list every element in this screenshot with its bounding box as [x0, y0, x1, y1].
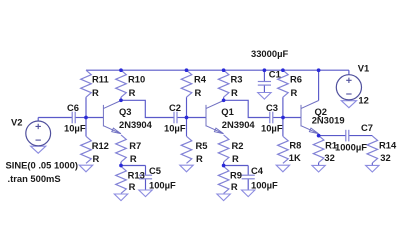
svg-text:R: R — [231, 87, 238, 98]
svg-text:R7: R7 — [129, 140, 141, 151]
svg-text:R: R — [196, 153, 203, 164]
svg-text:C6: C6 — [67, 102, 79, 113]
svg-text:R: R — [93, 153, 100, 164]
svg-text:R: R — [232, 153, 239, 164]
svg-text:Q3: Q3 — [119, 106, 132, 117]
svg-text:R: R — [291, 87, 298, 98]
svg-text:R: R — [92, 87, 99, 98]
svg-text:32: 32 — [380, 152, 390, 163]
svg-text:V1: V1 — [358, 62, 369, 73]
svg-text:C7: C7 — [361, 122, 373, 133]
svg-text:C1: C1 — [269, 68, 281, 79]
svg-text:1000µF: 1000µF — [335, 142, 367, 153]
svg-text:C3: C3 — [266, 102, 278, 113]
svg-text:R4: R4 — [194, 73, 207, 84]
svg-text:R14: R14 — [379, 140, 397, 151]
svg-text:R6: R6 — [290, 73, 302, 84]
svg-text:C4: C4 — [251, 165, 264, 176]
svg-text:12: 12 — [358, 94, 368, 105]
svg-text:C5: C5 — [149, 165, 161, 176]
svg-text:10µF: 10µF — [261, 122, 283, 133]
svg-text:R2: R2 — [232, 140, 244, 151]
svg-text:R: R — [129, 181, 136, 192]
svg-text:R: R — [129, 87, 136, 98]
svg-text:R12: R12 — [92, 140, 109, 151]
svg-text:R: R — [195, 87, 202, 98]
svg-text:R5: R5 — [196, 140, 208, 151]
svg-text:2N3904: 2N3904 — [119, 119, 153, 130]
svg-text:R: R — [130, 153, 137, 164]
svg-text:100µF: 100µF — [149, 179, 176, 190]
svg-text:1K: 1K — [289, 152, 301, 163]
svg-text:R3: R3 — [231, 73, 243, 84]
svg-text:32: 32 — [324, 152, 334, 163]
svg-text:SINE(0 .05 1000): SINE(0 .05 1000) — [6, 159, 78, 170]
svg-text:Q1: Q1 — [221, 106, 234, 117]
svg-text:.tran 500mS: .tran 500mS — [8, 173, 61, 184]
svg-text:R10: R10 — [128, 73, 145, 84]
svg-text:C2: C2 — [169, 102, 181, 113]
svg-text:R11: R11 — [92, 73, 109, 84]
svg-text:33000µF: 33000µF — [251, 48, 288, 59]
svg-text:10µF: 10µF — [164, 122, 186, 133]
svg-text:2N3904: 2N3904 — [222, 119, 256, 130]
svg-text:10µF: 10µF — [64, 122, 86, 133]
svg-text:R: R — [231, 181, 238, 192]
svg-text:R8: R8 — [289, 140, 301, 151]
svg-text:100µF: 100µF — [251, 179, 278, 190]
svg-text:R13: R13 — [128, 169, 145, 180]
svg-text:2N3019: 2N3019 — [312, 115, 345, 126]
svg-text:V2: V2 — [11, 117, 22, 128]
svg-text:R9: R9 — [230, 169, 242, 180]
